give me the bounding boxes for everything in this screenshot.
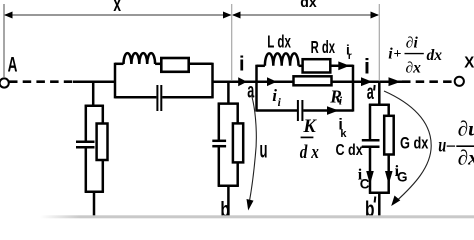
svg-text:i: i: [364, 54, 370, 78]
wire right of a': [379, 80, 402, 83]
svg-text:r: r: [348, 51, 352, 62]
current arrow i_i on middle branch: [267, 77, 277, 86]
terminal X circle: [455, 77, 464, 86]
series block right rail: [211, 63, 214, 99]
left shunt top junction bar: [85, 104, 104, 107]
label i_k: [338, 116, 347, 140]
voltage arc a' to b': [384, 91, 431, 206]
resistor box (middle shunt): [233, 123, 243, 162]
voltage u arc arrow a to b: [247, 95, 257, 211]
middle shunt top junction bar: [218, 102, 239, 105]
wire solid to series block: [73, 80, 115, 83]
wire dashed from A: [9, 80, 74, 83]
dimension line dx: [232, 12, 379, 19]
extension line right end of dx dimension: [378, 4, 380, 80]
right shunt drop wire at node a': [378, 82, 381, 105]
middle shunt wire to return conductor: [227, 186, 230, 218]
series block left rail: [114, 63, 117, 99]
main wire from block to node a: [213, 80, 257, 83]
node b' label: [365, 197, 375, 222]
svg-text:C: C: [360, 177, 370, 192]
current arrow i before node a: [238, 77, 247, 86]
svg-text:L dx: L dx: [267, 32, 291, 52]
right shunt wire to return conductor: [378, 193, 381, 218]
capacitor in series block bottom branch: [157, 85, 161, 111]
current arrow i after right rail: [361, 77, 372, 86]
series block bottom wire left: [115, 96, 156, 99]
svg-text:A: A: [8, 54, 18, 77]
left shunt resistor path wire lower: [102, 160, 105, 193]
left shunt wire to return conductor: [93, 192, 96, 218]
series block top wire to coil: [115, 63, 124, 66]
middle shunt capacitor path wire lower: [218, 146, 221, 187]
svg-text:∂i: ∂i: [406, 35, 419, 52]
svg-text:X: X: [464, 54, 474, 71]
wire resistor to right rail: [190, 63, 213, 66]
left shunt capacitor path wire lower: [85, 147, 88, 193]
svg-text:∂x: ∂x: [458, 146, 474, 170]
dashed wire to terminal X: [402, 80, 455, 83]
svg-text:R dx: R dx: [311, 37, 336, 57]
capacitor C (left shunt): [76, 142, 95, 147]
svg-text:d x: d x: [300, 142, 319, 163]
svg-text:−: −: [445, 136, 456, 156]
inductor L coil (x section): [124, 53, 156, 64]
dx top wire corner: [257, 65, 265, 68]
label i_C: [358, 167, 370, 192]
resistor box G dx (right shunt): [384, 116, 394, 155]
extension line left at terminal A: [3, 4, 5, 77]
left shunt capacitor path wire upper: [85, 105, 88, 141]
svg-text:x: x: [113, 0, 121, 16]
svg-text:∂x: ∂x: [406, 60, 422, 77]
label R_i: [329, 86, 343, 107]
middle shunt capacitor path wire upper: [218, 103, 221, 141]
terminal A circle: [0, 78, 9, 87]
current arrow i_G downward: [385, 171, 393, 185]
svg-text:G dx: G dx: [400, 135, 429, 153]
middle shunt bottom junction bar: [218, 184, 239, 187]
svg-text:i: i: [272, 86, 277, 105]
dimension line x: [4, 12, 232, 19]
capacitor K/dx on bottom branch: [298, 100, 303, 121]
svg-text:G: G: [397, 170, 408, 185]
svg-text:i: i: [239, 53, 245, 75]
current arrow i_r on top branch: [338, 61, 349, 70]
series block bottom wire right: [162, 96, 212, 99]
wire R dx box to right rail: [330, 65, 353, 68]
svg-text:K: K: [302, 117, 317, 137]
right shunt top junction bar: [369, 104, 390, 107]
right shunt resistor path wire upper: [387, 104, 390, 116]
inductor L dx coil: [265, 53, 299, 65]
dx bottom branch wire right: [303, 109, 353, 112]
right shunt resistor path wire lower: [387, 155, 390, 194]
svg-text:dx: dx: [427, 47, 443, 64]
left shunt resistor path wire upper: [102, 105, 105, 124]
wire coil to R dx box: [299, 65, 303, 68]
svg-text:a: a: [247, 80, 254, 103]
capacitor C dx (right shunt): [362, 140, 380, 147]
label u - du/dx (voltage at a'-b'): [438, 117, 474, 170]
svg-text:∂u: ∂u: [458, 117, 474, 141]
resistor box (x section series): [161, 58, 188, 72]
label i_G: [395, 163, 408, 185]
resistor box (left shunt): [97, 124, 108, 161]
dx middle branch main wire: [257, 80, 354, 83]
extension line between x and dx dimensions: [231, 4, 233, 80]
middle shunt resistor path wire upper: [236, 103, 239, 124]
left shunt bottom junction bar: [85, 191, 104, 194]
dx bottom branch wire left: [257, 109, 298, 112]
wire coil to resistor box: [155, 63, 161, 66]
current arrow i_k on bottom branch: [327, 106, 339, 115]
resistor box R_i (insulation resistance, on middle branch): [294, 76, 332, 85]
resistor box R dx: [303, 59, 331, 72]
label i_r: [346, 43, 352, 62]
middle shunt drop wire: [227, 82, 230, 104]
right shunt capacitor path wire upper: [369, 104, 372, 140]
node a' label: [367, 81, 375, 104]
right shunt capacitor path wire lower: [369, 147, 372, 194]
svg-text:u: u: [260, 136, 268, 162]
dx section right rail: [352, 65, 355, 112]
current arrow i_C downward: [366, 171, 374, 185]
current arrow i+di: [389, 77, 401, 86]
left shunt drop wire: [92, 82, 95, 106]
svg-text:+: +: [393, 47, 401, 62]
dx section left rail: [255, 65, 258, 112]
capacitor (middle shunt, line capacitance of section x): [212, 141, 226, 146]
svg-text:k: k: [340, 128, 347, 140]
label i + di/dx dx fraction: [388, 35, 442, 77]
right shunt bottom junction bar: [369, 192, 390, 195]
label fraction K/dx: [300, 117, 319, 163]
svg-text:a: a: [367, 81, 374, 104]
svg-text:dx: dx: [300, 0, 317, 11]
svg-text:C dx: C dx: [336, 142, 363, 159]
label i_i: [272, 86, 281, 109]
main wire node a' to X: [353, 80, 379, 83]
middle shunt resistor path wire lower: [236, 162, 239, 186]
